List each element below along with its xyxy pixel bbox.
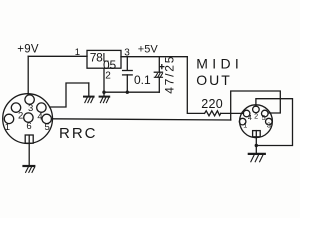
- junction dot C1 bottom: [126, 91, 129, 94]
- connector J2 pin labels: [243, 112, 271, 130]
- wire riser up and over to J2 pin5: [231, 91, 281, 120]
- connector J2 pin 5: [262, 110, 269, 117]
- wire R1 to connector J2 pin4: [221, 112, 244, 114]
- connector J2 pin 2: [253, 106, 260, 113]
- svg-text:2: 2: [254, 112, 258, 121]
- label MIDI OUT: [196, 56, 243, 88]
- capacitor C2 bottom lead: [158, 77, 160, 92]
- wire U1 pin2 to ground: [103, 68, 105, 96]
- connector J1 pin 6: [24, 113, 33, 122]
- svg-text:3: 3: [267, 121, 271, 130]
- pin 3 label U1: [124, 48, 130, 59]
- svg-text:2: 2: [105, 70, 111, 81]
- svg-text:47/25: 47/25: [162, 55, 176, 94]
- connector J2 key notch: [253, 131, 261, 137]
- svg-text:OUT: OUT: [196, 72, 232, 88]
- wire J1 notch to ground G0: [28, 136, 30, 166]
- connector J1 pin 2: [11, 103, 20, 112]
- ground G3 below J2: [249, 154, 265, 162]
- connector J2 pin 1: [239, 118, 246, 125]
- connector J1 pin 1: [4, 114, 13, 123]
- wire J2 notch center: [255, 131, 257, 137]
- wire signal from J1 pin5 to riser: [52, 119, 230, 120]
- label RRC: [59, 125, 98, 142]
- regulator U1 78L05 box: [87, 50, 121, 68]
- connector J2 pin 3: [266, 118, 273, 125]
- svg-text:MIDI: MIDI: [196, 56, 243, 72]
- wire +9V horizontal to U1 pin 1: [28, 55, 87, 57]
- wire connector J1 shell step to ground G1: [50, 83, 89, 107]
- node +9V label: [17, 43, 39, 55]
- svg-text:1: 1: [5, 122, 10, 133]
- svg-text:5: 5: [45, 122, 50, 133]
- svg-text:2: 2: [18, 111, 23, 122]
- connector J1 pin 4: [37, 103, 46, 112]
- wire U1 pin3 +5V rail: [121, 56, 187, 58]
- connector J1 key notch: [25, 135, 33, 143]
- svg-text:+9V: +9V: [17, 43, 39, 55]
- capacitor C2 plus sign: [160, 65, 164, 69]
- capacitor C2 47/25 top lead: [158, 57, 160, 72]
- ground G2 regulator: [100, 97, 110, 103]
- svg-text:+5V: +5V: [138, 44, 159, 56]
- capacitor C1 0.1 bottom lead: [126, 75, 128, 92]
- wire +5V drop to resistor R1: [187, 57, 204, 114]
- svg-text:1: 1: [243, 121, 247, 130]
- svg-text:1: 1: [75, 47, 80, 58]
- pin 1 label U1: [75, 47, 80, 58]
- svg-text:0.1: 0.1: [134, 73, 151, 87]
- wire ground bus to capacitors: [104, 91, 159, 93]
- wire +9V vertical to connector J1 pin 3: [27, 56, 29, 94]
- connector J1 DIN body: [3, 94, 53, 144]
- connector J2 pin 4: [243, 110, 250, 117]
- svg-text:220: 220: [201, 97, 223, 111]
- svg-text:4: 4: [248, 113, 252, 122]
- node +5V label: [138, 44, 159, 56]
- ground G0 below J1: [24, 166, 35, 172]
- resistor R1 220 zigzag: [205, 111, 221, 116]
- capacitor C2 value 47/25 rotated: [162, 55, 176, 94]
- capacitor C2 hatched plate: [155, 74, 162, 78]
- wire J2 pin2 loop to ground: [256, 99, 293, 146]
- capacitor C1 0.1 plates: [123, 70, 133, 72]
- pin 2 label U1: [105, 70, 111, 81]
- connector J2 DIN body: [240, 105, 273, 138]
- resistor R1 value 220: [201, 97, 223, 111]
- connector J1 pin 5: [42, 114, 51, 123]
- svg-text:6: 6: [26, 121, 31, 132]
- capacitor C1 0.1 top lead: [126, 57, 128, 71]
- junction dot pin2 ground bus: [102, 91, 105, 94]
- connector J1 pin labels: [5, 103, 50, 133]
- ground G1 connector shell: [84, 83, 94, 103]
- junction dot J2 ground: [255, 144, 258, 147]
- svg-text:4: 4: [37, 112, 42, 123]
- svg-text:5: 5: [262, 113, 266, 122]
- wire J2 notch to ground G3: [255, 131, 257, 154]
- capacitor C2 top plate: [154, 71, 162, 73]
- connector J1 pin 3: [25, 95, 34, 104]
- svg-text:RRC: RRC: [59, 125, 98, 142]
- regulator U1 78L05 value label: [90, 50, 117, 71]
- capacitor C1 value 0.1: [134, 73, 151, 87]
- svg-text:3: 3: [28, 103, 33, 114]
